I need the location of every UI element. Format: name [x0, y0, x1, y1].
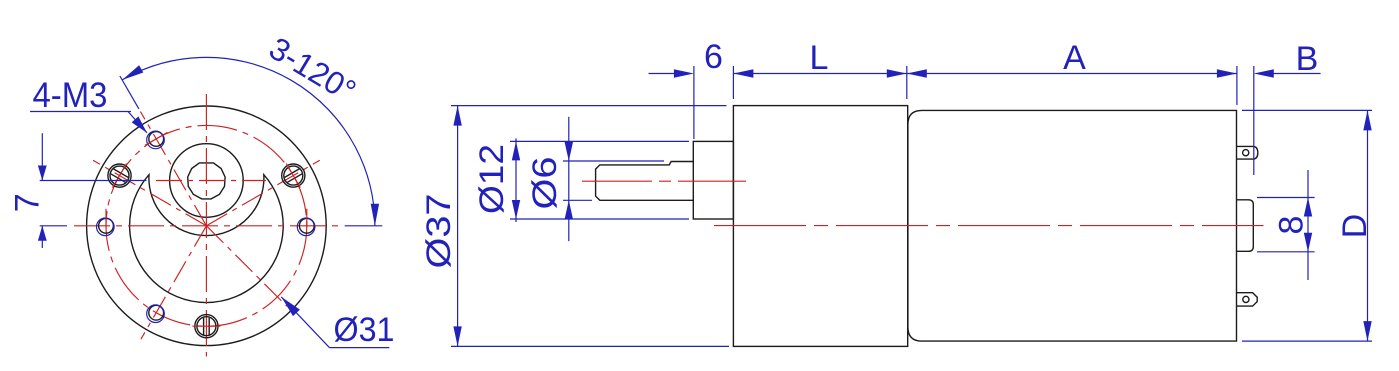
- dim A: extension line right: [1236, 66, 1238, 105]
- svg-text:Ø31: Ø31: [334, 311, 395, 349]
- radial centerline 240 deg: [141, 226, 207, 339]
- dim 6: extension line left: [693, 66, 695, 139]
- M3 mounting hole at 0 deg: [297, 209, 315, 236]
- svg-text:D: D: [1336, 214, 1374, 239]
- flange outer circle: [87, 106, 327, 346]
- dim 8: extension lines: [1257, 197, 1315, 199]
- dim L: dimension line: [733, 73, 906, 75]
- dim diam12: dimension line: [515, 138, 517, 222]
- svg-text:7: 7: [9, 193, 47, 212]
- radial centerline 150 deg: [93, 160, 206, 226]
- bolt circle centerline: [106, 125, 307, 326]
- dim diam6: extension lines: [563, 160, 664, 162]
- dimension 7: dimension line and arrows: [41, 133, 43, 180]
- dim 8: dimension line and arrows: [1307, 170, 1309, 280]
- dimension 7: extension lines: [40, 180, 147, 182]
- terminal tab bottom hole: [1243, 296, 1249, 302]
- svg-text:Ø6: Ø6: [526, 157, 564, 210]
- svg-text:Ø12: Ø12: [473, 144, 511, 214]
- right view: motor side: [420, 38, 1374, 346]
- brush cap bump: [1237, 200, 1254, 252]
- dim diam12: extension lines: [510, 140, 689, 142]
- shaft axis centerline: [582, 180, 746, 182]
- arc dim extension line at 0deg: [345, 225, 383, 227]
- svg-text:L: L: [810, 39, 829, 77]
- motor body: [908, 110, 1237, 341]
- left view: motor flange front: [9, 30, 395, 357]
- radial centerline 315 deg: [206, 226, 287, 307]
- gearbox crescent rib: [130, 175, 284, 303]
- dim diam6: dimension line and outside arrows: [568, 117, 570, 241]
- dim D: extension lines: [1242, 109, 1372, 111]
- svg-text:4-M3: 4-M3: [33, 76, 108, 115]
- svg-text:8: 8: [1273, 216, 1311, 235]
- horizontal centerline: [74, 225, 339, 227]
- dim B: extension line: [1253, 66, 1255, 175]
- output shaft with D-flat (faceted): [188, 163, 225, 199]
- dim 6: outside arrow: [649, 73, 679, 75]
- shaft boss circle: [170, 144, 244, 218]
- terminal tab bottom: [1237, 293, 1258, 306]
- bearing boss: [693, 141, 733, 219]
- svg-text:A: A: [1063, 39, 1086, 77]
- terminal tab top: [1237, 146, 1258, 159]
- motor axis centerline: [714, 225, 1264, 227]
- M3 mounting hole at 180 deg: [97, 209, 115, 236]
- svg-text:3-120°: 3-120°: [263, 30, 362, 109]
- svg-text:6: 6: [704, 38, 723, 76]
- dim L: extension lines: [732, 66, 734, 99]
- M3 mounting hole at 240 deg: [147, 305, 165, 323]
- dim B: outside arrow: [1270, 73, 1321, 75]
- dim diam37: dimension line: [457, 106, 459, 347]
- gearbox screw at 270 deg: [192, 315, 220, 338]
- output shaft side profile with flat: [596, 162, 694, 201]
- label 4-M3 leader: [30, 111, 131, 113]
- dim diam37: extension lines: [451, 105, 726, 107]
- shaft horizontal centerline: [156, 180, 266, 182]
- gearbox screw at 30 deg: [282, 164, 305, 188]
- radial centerline 30 deg: [206, 160, 319, 226]
- label diam31 leader: [329, 347, 389, 349]
- terminal tab top hole: [1243, 150, 1249, 156]
- gearbox screw at 150 deg: [108, 164, 131, 188]
- dim A: dimension line: [907, 73, 1237, 75]
- radial centerline 120 deg: [140, 112, 206, 226]
- svg-text:Ø37: Ø37: [420, 194, 458, 269]
- dimension arc 3-120deg: [122, 57, 375, 225]
- gearbox body: [733, 106, 907, 347]
- arc dim extension line at 120deg: [120, 76, 139, 109]
- svg-text:B: B: [1296, 40, 1319, 78]
- vertical centerline: [205, 94, 207, 357]
- M3 mounting hole at 120 deg: [145, 131, 168, 149]
- dim D: dimension line: [1367, 110, 1369, 341]
